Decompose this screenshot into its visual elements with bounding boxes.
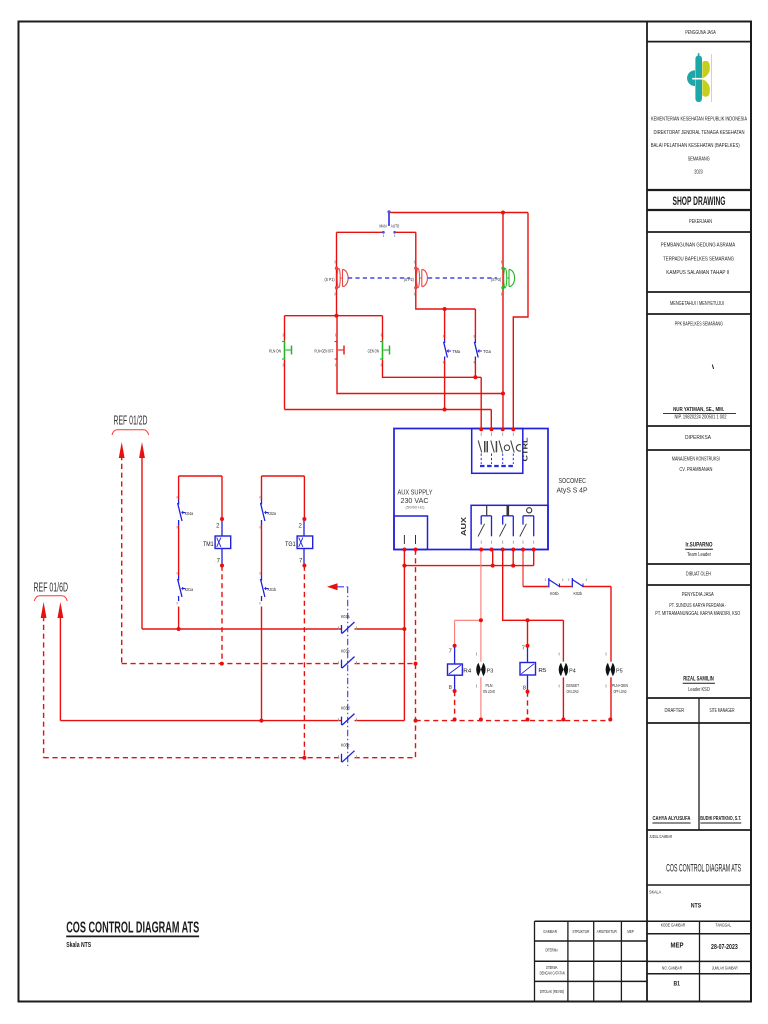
svg-text:TM1: TM1 xyxy=(203,541,214,548)
svg-text:K04b: K04b xyxy=(550,591,559,596)
svg-text:PENGGUNA JASA: PENGGUNA JASA xyxy=(685,30,716,36)
svg-text:MANAJEMEN KONSTRUKSI: MANAJEMEN KONSTRUKSI xyxy=(672,456,720,462)
svg-text:COS CONTROL DIAGRAM ATS: COS CONTROL DIAGRAM ATS xyxy=(66,920,199,937)
svg-text:AUX: AUX xyxy=(459,517,468,536)
svg-text:MEP: MEP xyxy=(671,941,684,950)
svg-text:PLN ON: PLN ON xyxy=(269,348,281,353)
svg-text:DITOLAK (REVISI): DITOLAK (REVISI) xyxy=(540,989,565,995)
svg-text:Skala NTS: Skala NTS xyxy=(66,942,91,949)
svg-text:K01a: K01a xyxy=(185,587,194,592)
svg-text:230 VAC: 230 VAC xyxy=(401,498,429,505)
svg-text:CAHYA ALYUSUFA: CAHYA ALYUSUFA xyxy=(653,816,691,822)
svg-text:7: 7 xyxy=(217,559,221,565)
svg-text:AUX SUPPLY: AUX SUPPLY xyxy=(398,490,433,497)
svg-text:TGa: TGa xyxy=(483,349,491,354)
svg-text:SOCOMEC: SOCOMEC xyxy=(559,478,587,485)
svg-text:SHOP DRAWING: SHOP DRAWING xyxy=(673,194,726,208)
svg-text:DITERIMA: DITERIMA xyxy=(545,947,558,953)
svg-text:NO. GAMBAR: NO. GAMBAR xyxy=(662,965,682,970)
svg-text:PEMBANGUNAN GEDUNG ASRAMA: PEMBANGUNAN GEDUNG ASRAMA xyxy=(661,243,736,249)
svg-text:P5: P5 xyxy=(616,668,623,674)
svg-text:2: 2 xyxy=(298,524,302,530)
svg-text:KODE GAMBAR: KODE GAMBAR xyxy=(661,923,686,929)
svg-text:8: 8 xyxy=(449,685,452,691)
svg-text:Leader KSO: Leader KSO xyxy=(688,687,710,693)
svg-text:TERPADU BAPELKES SEMARANG: TERPADU BAPELKES SEMARANG xyxy=(663,256,734,262)
svg-text:DRAFTER: DRAFTER xyxy=(665,708,685,714)
svg-text:PLN: PLN xyxy=(486,683,493,688)
svg-text:PPK BAPELKES SEMARANG: PPK BAPELKES SEMARANG xyxy=(675,321,723,327)
svg-text:2023: 2023 xyxy=(694,170,703,176)
svg-text:K04a: K04a xyxy=(185,511,194,516)
svg-text:28-07-2023: 28-07-2023 xyxy=(711,944,738,951)
svg-text:BUDHI PRATIKNO, S.T.: BUDHI PRATIKNO, S.T. xyxy=(700,816,741,822)
svg-text:MAN: MAN xyxy=(380,224,387,229)
svg-text:ON LOAD: ON LOAD xyxy=(483,689,495,694)
svg-text:PLN+GEN: PLN+GEN xyxy=(612,683,628,688)
svg-text:NUR YATIMAN, SE., MM.: NUR YATIMAN, SE., MM. xyxy=(673,407,724,413)
svg-text:7: 7 xyxy=(299,559,303,565)
svg-text:P3: P3 xyxy=(487,668,494,674)
svg-text:COS CONTROL DIAGRAM ATS: COS CONTROL DIAGRAM ATS xyxy=(666,863,741,875)
svg-text:K02b: K02b xyxy=(574,591,583,596)
svg-text:7: 7 xyxy=(522,646,525,652)
svg-text:GEN ON: GEN ON xyxy=(368,348,379,353)
svg-text:ON LOAD: ON LOAD xyxy=(567,689,579,694)
svg-text:CV. PRAMBANAN: CV. PRAMBANAN xyxy=(679,467,712,473)
svg-text:JUMLAH GAMBAR: JUMLAH GAMBAR xyxy=(712,965,738,970)
svg-text:MEP: MEP xyxy=(627,929,634,935)
svg-text:CTRL: CTRL xyxy=(521,437,530,462)
svg-text:8: 8 xyxy=(523,686,526,692)
svg-text:R4: R4 xyxy=(463,668,471,674)
svg-text:JUDUL GAMBAR: JUDUL GAMBAR xyxy=(649,834,672,839)
svg-text:K03b: K03b xyxy=(341,648,350,653)
svg-text:BALAI PELATIHAN KESEHATAN (BAP: BALAI PELATIHAN KESEHATAN (BAPELKES) xyxy=(651,143,740,149)
svg-text:DIPERIKSA: DIPERIKSA xyxy=(685,435,711,441)
svg-text:NIP. 19820224 200501 1 002: NIP. 19820224 200501 1 002 xyxy=(675,415,727,421)
svg-text:K03a: K03a xyxy=(341,614,350,619)
svg-text:SITE MANAGER: SITE MANAGER xyxy=(710,708,735,714)
svg-text:(50/60 Hz): (50/60 Hz) xyxy=(406,506,425,510)
svg-text:R5: R5 xyxy=(538,668,546,674)
svg-text:K03c: K03c xyxy=(341,743,350,748)
svg-text:(S P1): (S P1) xyxy=(325,277,335,282)
svg-text:P4: P4 xyxy=(569,668,576,674)
svg-text:PLN=GEN OFF: PLN=GEN OFF xyxy=(315,348,334,353)
svg-text:TG1: TG1 xyxy=(285,541,296,548)
svg-text:STRUKTUR: STRUKTUR xyxy=(572,929,589,935)
svg-text:K03d: K03d xyxy=(341,705,350,710)
svg-text:PT. MITRAMANUNGGAL KARYA MANDI: PT. MITRAMANUNGGAL KARYA MANDIRI, KSO xyxy=(655,611,740,617)
svg-text:SKALA: SKALA xyxy=(649,890,662,895)
svg-text:DENGAN CATATAN: DENGAN CATATAN xyxy=(540,971,565,976)
svg-text:PT. SUNDUS KARYA PERDANA -: PT. SUNDUS KARYA PERDANA - xyxy=(669,603,726,609)
svg-text:MENGETAHUI / MENYETUJUI: MENGETAHUI / MENYETUJUI xyxy=(670,301,724,307)
svg-text:TANGGAL: TANGGAL xyxy=(716,922,732,928)
svg-text:GAMBAR: GAMBAR xyxy=(543,929,557,935)
svg-text:DIREKTORAT JENDRAL TENAGA KESE: DIREKTORAT JENDRAL TENAGA KESEHATAN xyxy=(654,130,745,136)
svg-text:NTS: NTS xyxy=(691,904,702,910)
svg-text:AUTO: AUTO xyxy=(391,224,400,229)
svg-text:TMa: TMa xyxy=(452,349,460,354)
svg-text:PEKERJAAN: PEKERJAAN xyxy=(689,219,712,225)
svg-text:GENSET: GENSET xyxy=(566,683,579,688)
svg-text:KEMENTERIAN KESEHATAN REPUBLIK: KEMENTERIAN KESEHATAN REPUBLIK INDONESIA xyxy=(651,117,747,123)
svg-text:PENYEDIA JASA: PENYEDIA JASA xyxy=(682,592,715,598)
svg-text:REF 01/6D: REF 01/6D xyxy=(34,579,69,594)
svg-text:SEMARANG: SEMARANG xyxy=(688,156,710,162)
svg-text:DITERIMA: DITERIMA xyxy=(546,965,558,970)
svg-text:REF 01/2D: REF 01/2D xyxy=(114,413,148,428)
svg-text:DIBUAT OLEH: DIBUAT OLEH xyxy=(686,571,711,577)
svg-text:B1: B1 xyxy=(673,980,680,987)
svg-text:AtyS S 4P: AtyS S 4P xyxy=(557,488,588,495)
svg-text:KAMPUS SALAMAN TAHAP II: KAMPUS SALAMAN TAHAP II xyxy=(666,270,729,276)
svg-text:2: 2 xyxy=(216,524,220,530)
svg-text:RIZAL SAMILIN: RIZAL SAMILIN xyxy=(683,676,714,682)
svg-text:OFF LOAD: OFF LOAD xyxy=(614,689,627,694)
svg-text:ARSITEKTUR: ARSITEKTUR xyxy=(597,929,618,935)
svg-text:Team Leader: Team Leader xyxy=(687,552,711,558)
svg-text:K01b: K01b xyxy=(268,587,277,592)
svg-text:K02a: K02a xyxy=(268,511,277,516)
svg-text:7: 7 xyxy=(449,649,452,655)
svg-text:Ir.SUPARNO: Ir.SUPARNO xyxy=(686,542,713,548)
